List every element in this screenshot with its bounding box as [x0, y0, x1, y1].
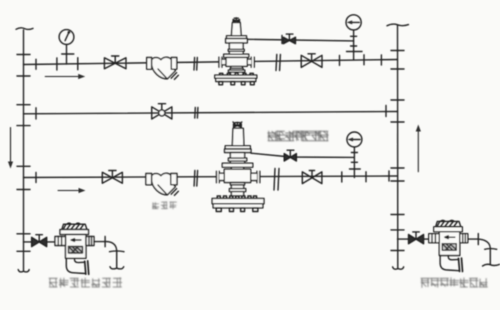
line1 left flange ticks around gauge tee: [57, 58, 78, 70]
gate valve V2 (line1 right): [301, 54, 322, 68]
signal valve SV2: [284, 150, 296, 161]
signal pipe from PRV2 (slopes down): [251, 153, 354, 157]
trap valve V7 (right): [409, 232, 424, 244]
label: inverted bucket steam trap (left): [49, 278, 122, 288]
line1 right ticks: [340, 55, 382, 66]
gate valve V4 (line3 left): [102, 171, 122, 184]
flow arrow right (line1): [45, 74, 85, 79]
line2 tick near right pipe: [385, 106, 387, 117]
line3 tick near left pipe: [35, 173, 37, 183]
left vertical supply pipe: [16, 28, 33, 272]
trap valve V6 (left): [32, 235, 47, 247]
pressure reducing valve PRV2: [212, 122, 264, 212]
Y-strainer F2: [146, 173, 179, 195]
steam trap ST2 (inverted bucket, right): [429, 220, 468, 271]
left trap branch pipe: [24, 241, 57, 243]
pressure gauge PG2: [346, 15, 362, 60]
line2 tick near left pipe: [35, 108, 37, 119]
middle bypass line 2: [24, 112, 398, 114]
right vertical pipe: [387, 24, 409, 269]
steam trap ST1 (inverted bucket, left): [55, 223, 94, 274]
pressure reducing valve PRV1: [215, 18, 257, 85]
line3 right ticks: [342, 171, 389, 182]
flow arrow up (right): [416, 125, 421, 172]
gate valve V1 (line1 left): [104, 56, 126, 69]
flow arrow down (left): [8, 128, 13, 169]
flange pair after PRV1: [276, 55, 280, 71]
label: inverted bucket steam trap (right): [421, 278, 488, 288]
flange pair before PRV2: [194, 171, 198, 187]
line1 tick near left pipe: [35, 59, 37, 69]
upper main line 1: [24, 60, 398, 65]
label: signal pipe slopes downward: [268, 131, 329, 141]
ball valve V3 (bypass): [152, 104, 172, 119]
line2 flange pair: [195, 108, 198, 119]
left pipe flange ticks: [17, 55, 30, 252]
lower main line 3: [24, 176, 398, 178]
flow arrow right (line3): [58, 188, 86, 193]
label: strainer: [153, 202, 177, 209]
signal pipe from PRV1: [247, 36, 353, 44]
pressure gauge PG3: [347, 132, 362, 178]
gate valve V5 (line3 right): [302, 171, 322, 184]
flange pair before PRV1: [194, 58, 197, 71]
pressure gauge PG1: [59, 30, 74, 64]
flange pair after PRV2: [274, 169, 279, 191]
right trap branch pipe: [398, 238, 430, 240]
right trap outlet pipe and elbow: [468, 234, 500, 266]
right pipe flange ticks: [391, 51, 404, 251]
signal valve SV1: [283, 34, 295, 44]
left trap outlet pipe and elbow: [94, 237, 124, 269]
Y-strainer F1: [147, 57, 179, 79]
